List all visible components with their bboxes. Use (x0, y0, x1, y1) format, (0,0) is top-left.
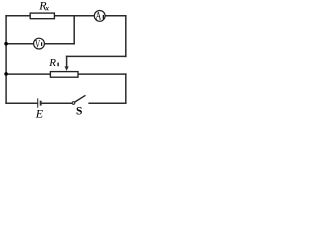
svg-text:R: R (48, 57, 56, 69)
wire: top segment ammeter to top-right corner (105, 15, 126, 17)
wire: right lower vertical (125, 74, 127, 103)
switch S blade (75, 95, 86, 102)
wire: left border vertical (5, 16, 7, 104)
node dot: left border / R1 junction (4, 72, 8, 76)
rheostat R1 slider arrowhead (65, 66, 69, 71)
wire: voltmeter row left (left border to V) (6, 43, 34, 45)
rheostat R1 box (50, 72, 78, 78)
wire: bottom segment left corner to battery (6, 102, 37, 104)
wire: slider vertical drop to arrow (66, 56, 68, 66)
svg-text:A: A (95, 8, 101, 22)
wire: R1 left lead (6, 73, 50, 75)
wire: top segment from top-left corner to Rx (6, 15, 30, 17)
voltmeter V1 (34, 38, 45, 49)
wire: right upper vertical (corner down to slider wire) (125, 16, 127, 57)
svg-text:x: x (45, 5, 50, 13)
wire: bottom segment battery to switch (41, 102, 73, 104)
resistor Rx (box on top wire) (30, 13, 54, 19)
wire: R1 right lead (78, 73, 126, 75)
svg-text:V: V (35, 36, 41, 50)
ammeter A1 (94, 11, 105, 22)
switch S pivot (72, 102, 75, 105)
node dot: left border / voltmeter junction (4, 42, 8, 46)
battery E long plate (37, 98, 39, 107)
wire: bottom segment right of switch (89, 102, 126, 104)
wire: slider horizontal wire (67, 55, 126, 57)
wire: top segment Rx to ammeter (54, 15, 94, 17)
svg-text:S: S (76, 106, 82, 118)
svg-text:E: E (35, 106, 44, 120)
wire: voltmeter row right (V to vertical branch) (44, 43, 74, 45)
wire: voltmeter branch vertical at node on top wire (73, 16, 75, 44)
battery E short plate (40, 101, 42, 106)
